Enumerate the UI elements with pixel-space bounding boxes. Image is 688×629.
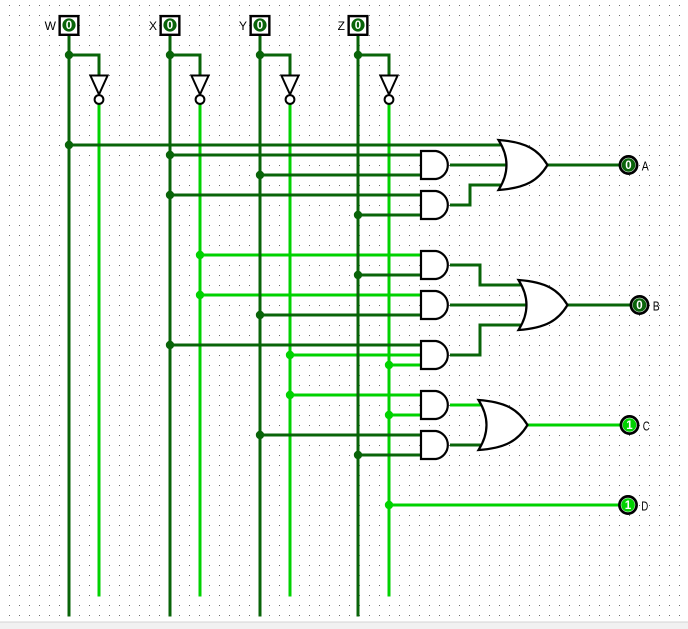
svg-text:0: 0	[167, 20, 173, 32]
junction Y tap at y=175	[256, 171, 264, 179]
junction X tap at y=195	[166, 191, 174, 199]
AND gate U11 (C term 2)	[421, 431, 448, 459]
junction Y-not tap at y=395	[286, 391, 294, 399]
output pin D (value 1)	[619, 496, 636, 513]
junction Z tap at y=455	[354, 451, 362, 459]
junction X-not tap at y=295	[196, 291, 204, 299]
AND gate U8 (B term 2)	[421, 291, 448, 319]
input pin Y (value 0)	[251, 16, 270, 35]
input pin Z (value 0)	[349, 16, 368, 35]
junction Y tap at y=435	[256, 431, 264, 439]
svg-text:Y: Y	[239, 19, 247, 33]
wire Z to AND3 bottom input (y=275)	[358, 274, 420, 277]
wire OR-A output to pin A (y=165)	[547, 164, 621, 167]
wire Z to AND7 bottom input (y=455)	[358, 454, 420, 457]
OR gate U14 (output C)	[479, 400, 528, 450]
wire AND7 output to OR-C bottom input (y=445)	[450, 444, 482, 447]
svg-text:1: 1	[625, 500, 632, 512]
AND gate U10 (C term 1)	[421, 391, 448, 419]
svg-text:W: W	[45, 19, 57, 33]
svg-text:0: 0	[66, 20, 72, 32]
wire OR-B output to pin B (y=305)	[567, 304, 631, 307]
junction Z-not tap at y=365	[385, 361, 393, 369]
junction Z branch tee	[354, 51, 362, 59]
wire X branch to inverter vertical	[199, 55, 202, 76]
wire Y branch to inverter vertical	[289, 55, 292, 76]
OR gate U13 (output B)	[519, 280, 568, 330]
wire Z branch to inverter horizontal	[357, 54, 391, 57]
wire AND3 output dropper (x=480)	[479, 264, 482, 287]
wire Z-not to pin D (y=505)	[389, 504, 620, 507]
junction Y tap at y=315	[256, 311, 264, 319]
wire X to AND5 top input (y=345)	[170, 344, 420, 347]
wire X branch to inverter horizontal	[169, 54, 202, 57]
inverter U3 (inverts Y)	[281, 76, 298, 104]
wire W to OR-A top input (y=145)	[69, 144, 502, 147]
wire Y-not to AND5 middle input (y=355)	[290, 354, 420, 357]
svg-text:1: 1	[626, 420, 633, 432]
svg-text:0: 0	[625, 160, 631, 172]
output pin C (value 1)	[621, 416, 638, 433]
wire Y to AND7 top input (y=435)	[260, 434, 420, 437]
bottom window edge bar	[0, 622, 688, 629]
wire W-not vertical (x=99)	[98, 104, 101, 597]
wire W branch to inverter vertical	[98, 55, 101, 76]
svg-text:0: 0	[636, 300, 642, 312]
svg-text:D: D	[641, 498, 648, 513]
wire X to AND1 top input (y=155)	[170, 154, 420, 157]
wire Z to AND2 bottom input (y=215)	[358, 214, 420, 217]
wire Y to AND4 bottom input (y=315)	[260, 314, 420, 317]
input pin W (value 0)	[60, 16, 79, 35]
svg-text:X: X	[149, 19, 157, 33]
junction X tap at y=155	[166, 151, 174, 159]
inverter U2 (inverts X)	[191, 76, 208, 104]
svg-text:0: 0	[355, 20, 361, 32]
junction X-not tap at y=255	[196, 251, 204, 259]
wire Z branch to inverter vertical	[388, 55, 391, 76]
junction W branch tee	[65, 51, 73, 59]
OR gate U12 (output A)	[499, 140, 548, 190]
wire W branch to inverter horizontal	[68, 54, 101, 57]
AND gate U7 (B term 1)	[421, 251, 448, 279]
wire AND5 output to OR-B bottom input (y=325)	[479, 324, 523, 327]
AND gate U6 (A term 2)	[421, 191, 448, 219]
junction Z-not tap at y=505	[385, 501, 393, 509]
svg-text:0: 0	[257, 20, 263, 32]
wire AND3 output to OR-B top input (y=285)	[479, 284, 523, 287]
wire AND2 output riser (x=470)	[469, 184, 472, 207]
junction X tap at y=345	[166, 341, 174, 349]
junction Z tap at y=275	[354, 271, 362, 279]
svg-text:A: A	[642, 158, 649, 173]
wire AND2 output horizontal (y=205)	[450, 204, 472, 207]
wire Y branch to inverter horizontal	[259, 54, 292, 57]
junction W tap at y=145	[65, 141, 73, 149]
wire AND1 output to OR-A middle input (y=165)	[450, 164, 506, 167]
wire Y-not vertical (x=290)	[289, 104, 292, 597]
inverter U4 (inverts Z)	[380, 76, 397, 104]
wire Z-not vertical (x=389)	[388, 104, 391, 597]
wire OR-C output to pin C (y=425)	[527, 424, 621, 427]
junction Y-not tap at y=355	[286, 351, 294, 359]
inverter U1 (inverts W)	[90, 76, 107, 104]
wire Y-not to AND6 top input (y=395)	[290, 394, 420, 397]
junction X branch tee	[166, 51, 174, 59]
AND gate U9 (B term 3)	[421, 341, 448, 369]
svg-text:B: B	[653, 298, 660, 313]
junction Y branch tee	[256, 51, 264, 59]
junction Z tap at y=215	[354, 211, 362, 219]
wire X vertical (x=170)	[169, 35, 172, 617]
wire AND2 output to OR-A bottom input (y=185)	[469, 184, 503, 187]
output pin B (value 0)	[631, 296, 648, 313]
output pin A (value 0)	[620, 156, 637, 173]
wire Y vertical (x=260)	[259, 35, 262, 617]
junction Z-not tap at y=415	[385, 411, 393, 419]
wire AND4 output to OR-B middle input (y=305)	[450, 304, 526, 307]
wire Y to AND1 bottom input (y=175)	[260, 174, 420, 177]
wire AND3 output horizontal (y=265)	[450, 264, 482, 267]
input pin X (value 0)	[161, 16, 180, 35]
wire AND5 output riser (x=480)	[479, 324, 482, 357]
wire Z-not to AND6 bottom input (y=415)	[389, 414, 420, 417]
AND gate U5 (A term 1)	[421, 151, 448, 179]
svg-text:C: C	[643, 418, 650, 433]
wire X-not to AND3 top input (y=255)	[200, 254, 420, 257]
wire AND6 output to OR-C top input (y=405)	[450, 404, 482, 407]
wire Z vertical (x=358)	[357, 35, 360, 617]
wire W vertical (x=69)	[68, 35, 71, 617]
wire X-not vertical (x=200)	[199, 104, 202, 597]
svg-text:Z: Z	[338, 19, 345, 33]
wire X to AND2 top input (y=195)	[170, 194, 420, 197]
wire AND5 output horizontal (y=355)	[450, 354, 482, 357]
wire Z-not to AND5 bottom input (y=365)	[389, 364, 420, 367]
wire X-not to AND4 top input (y=295)	[200, 294, 420, 297]
